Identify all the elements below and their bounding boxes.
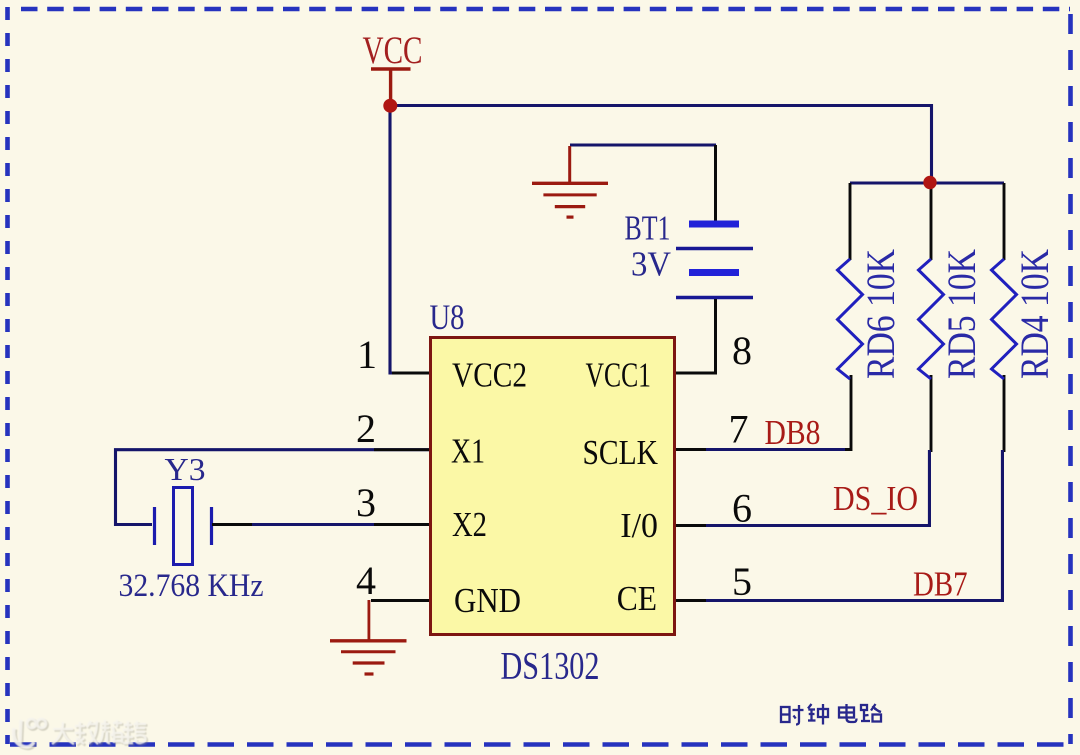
resistor RD6 (838, 249, 904, 379)
wire RD4 bottom stub (1003, 375, 1006, 452)
钟 (808, 704, 828, 725)
svg-text:SCLK: SCLK (583, 433, 659, 472)
battery BT1 (625, 209, 754, 298)
node VCC junction (383, 99, 397, 113)
svg-text:8: 8 (732, 328, 752, 373)
svg-text:X2: X2 (452, 505, 487, 544)
svg-text:4: 4 (356, 558, 376, 603)
svg-text:U8: U8 (430, 297, 465, 337)
wire pin 4 to ground (371, 599, 429, 602)
wire pin 7 net (706, 448, 845, 451)
watermark text 大数跨境 (52, 720, 146, 744)
svg-text:5: 5 (732, 559, 752, 604)
svg-text:1: 1 (357, 332, 377, 377)
svg-text:32.768 KHz: 32.768 KHz (119, 568, 264, 604)
wire pin 2 stub (374, 448, 429, 451)
电 (839, 704, 857, 722)
wire resistor top rail (850, 181, 1004, 184)
svg-text:RD5 10K: RD5 10K (939, 249, 984, 379)
svg-text:VCC: VCC (363, 29, 423, 72)
svg-text:DS1302: DS1302 (501, 645, 600, 688)
svg-text:CE: CE (617, 579, 657, 618)
wire pin 3 stub (374, 523, 429, 526)
svg-text:Y3: Y3 (165, 451, 206, 487)
svg-text:RD4 10K: RD4 10K (1012, 249, 1057, 379)
watermark logo (15, 721, 47, 749)
label 时钟电路 (clock circuit) (781, 704, 881, 725)
IC U8 body (431, 338, 675, 635)
svg-text:DB7: DB7 (913, 565, 968, 604)
svg-text:GND: GND (454, 581, 521, 620)
时 (781, 707, 790, 722)
node resistor-rail junction (923, 176, 936, 189)
wire pin 1 stub (392, 372, 429, 375)
resistor RD4 (992, 249, 1058, 379)
svg-text:6: 6 (732, 486, 752, 531)
svg-text:3V: 3V (631, 245, 671, 284)
svg-text:7: 7 (729, 407, 749, 452)
wire VCC down to pin 1 (390, 106, 400, 374)
wire battery top stub (714, 145, 717, 222)
路 (861, 704, 881, 722)
svg-text:2: 2 (356, 406, 376, 451)
ground (pin 4) (330, 641, 407, 674)
wire RD6 top stub (849, 183, 852, 260)
wire RD5 top stub (930, 183, 933, 260)
wire VCC top rail (390, 106, 932, 181)
watermark text shadow (54, 722, 148, 746)
svg-text:3: 3 (356, 480, 376, 525)
wire ground stem (pin 4) (367, 600, 370, 640)
ground (battery) (532, 146, 608, 217)
wire pin 7 to RD6 (676, 375, 851, 450)
svg-text:I/0: I/0 (620, 506, 658, 545)
wire battery bottom to pin 8 (676, 299, 716, 373)
wire pin 5 stub (676, 599, 708, 602)
svg-text:DS_IO: DS_IO (833, 479, 918, 518)
svg-text:RD6 10K: RD6 10K (858, 249, 903, 379)
svg-text:VCC1: VCC1 (586, 356, 652, 395)
wire crystal right stub (212, 523, 252, 526)
svg-text:VCC2: VCC2 (452, 356, 527, 395)
wire battery ground rail (570, 143, 716, 146)
wire pin 6 stub (676, 524, 708, 527)
resistor RD5 (919, 249, 985, 379)
crystal Y3 (119, 451, 264, 604)
wire crystal to pin 3 (212, 523, 429, 526)
wire pin 6 net (706, 450, 929, 526)
power symbol VCC (363, 29, 423, 101)
wire pin 5 net (706, 450, 1002, 601)
wire RD4 top stub (1003, 183, 1006, 260)
svg-text:X1: X1 (451, 432, 485, 471)
svg-text:BT1: BT1 (625, 209, 671, 248)
wire RD5 bottom stub (930, 375, 933, 452)
wire pin 2 to crystal (116, 450, 430, 525)
svg-text:DB8: DB8 (765, 413, 821, 452)
